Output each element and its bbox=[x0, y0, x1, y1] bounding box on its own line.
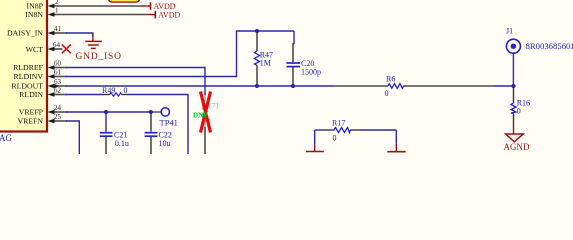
svg-text:AG: AG bbox=[0, 133, 12, 143]
pin arrow RLDIN bbox=[48, 92, 55, 96]
svg-text:41: 41 bbox=[54, 25, 62, 33]
svg-text:0: 0 bbox=[385, 89, 389, 98]
svg-text:1500p: 1500p bbox=[301, 68, 321, 77]
resistor R49 bbox=[102, 86, 129, 96]
wire R17 right leg down bbox=[395, 130, 397, 144]
svg-text:8R00368560113: 8R00368560113 bbox=[526, 41, 573, 51]
wire pin25 VREFN bbox=[53, 120, 67, 122]
svg-text:0: 0 bbox=[517, 106, 521, 115]
wire pin2 IN8P to AVDD bbox=[53, 5, 141, 7]
pin arrow RLDREF bbox=[48, 65, 55, 69]
svg-text:AGND: AGND bbox=[504, 142, 530, 152]
svg-text:J1: J1 bbox=[506, 27, 513, 36]
pin arrow RLDOUT (bidirectional) bbox=[48, 84, 55, 88]
junction node J1/R16 bbox=[512, 84, 516, 88]
power symbol AVDD (pin 1) bbox=[147, 11, 181, 20]
pin arrow IN8P bbox=[48, 4, 55, 8]
svg-text:DNP: DNP bbox=[193, 112, 208, 120]
capacitor C22 bbox=[145, 112, 172, 154]
wire pin61 RLDINV up and over to R47/C20 bbox=[53, 76, 67, 78]
ground AGND bbox=[504, 128, 530, 152]
op-amp U1 (ECG front-end IC body, yellow block at left) bbox=[0, 0, 47, 132]
svg-text:24: 24 bbox=[54, 104, 62, 112]
wire pin64 WCT stub bbox=[53, 48, 63, 50]
ground (left, clipped) bbox=[306, 145, 324, 152]
svg-text:RLDIN: RLDIN bbox=[19, 90, 43, 99]
svg-text:C20: C20 bbox=[301, 59, 314, 68]
svg-text:GND_ISO: GND_ISO bbox=[76, 52, 122, 62]
wire pin60 RLDREF bbox=[53, 67, 67, 69]
no-connect X on WCT bbox=[62, 45, 71, 54]
power symbol AVDD (pin 2) bbox=[141, 2, 176, 11]
pin arrow WCT bbox=[48, 47, 55, 51]
svg-text:IN8N: IN8N bbox=[25, 10, 43, 19]
ground GND_ISO bbox=[76, 35, 122, 62]
svg-text:RLDREF: RLDREF bbox=[13, 63, 44, 72]
connector J1 bbox=[506, 27, 573, 54]
wire pin41 DAISY_IN bbox=[53, 32, 67, 34]
svg-text:TP41: TP41 bbox=[160, 117, 178, 127]
resistor R47 bbox=[255, 31, 274, 86]
svg-text:10u: 10u bbox=[159, 139, 171, 148]
test point TP41 bbox=[160, 108, 178, 128]
svg-text:0.1u: 0.1u bbox=[115, 139, 129, 148]
svg-text:0: 0 bbox=[124, 86, 128, 95]
DNP marking X on R71 bbox=[193, 92, 211, 133]
svg-text:0: 0 bbox=[333, 133, 337, 142]
ground (right, clipped) bbox=[387, 144, 405, 152]
wire below R71 bbox=[204, 127, 206, 154]
wire TP41 stub bbox=[151, 111, 161, 113]
wire pin63 RLDOUT long net bbox=[53, 85, 67, 87]
wire J1 down to net bbox=[512, 53, 514, 86]
wire pin1 IN8N to AVDD bbox=[53, 14, 147, 16]
svg-text:VREFP: VREFP bbox=[19, 108, 44, 117]
svg-text:R49: R49 bbox=[102, 86, 115, 95]
junction node R47 bottom bbox=[255, 84, 259, 88]
wire pin62 RLDIN with R49 bbox=[53, 94, 67, 96]
pin arrow VREFN bbox=[48, 119, 55, 123]
svg-text:DAISY_IN: DAISY_IN bbox=[7, 29, 43, 38]
resistor R16 bbox=[511, 86, 530, 128]
pin arrow IN8N bbox=[48, 12, 55, 16]
component (clipped yellow part at top) bbox=[109, 0, 140, 2]
svg-text:RLDINV: RLDINV bbox=[14, 72, 44, 81]
svg-text:61: 61 bbox=[54, 69, 62, 77]
svg-text:VREFN: VREFN bbox=[17, 117, 43, 126]
wire pin24 VREFP bbox=[53, 111, 67, 113]
svg-text:2: 2 bbox=[55, 0, 59, 6]
junction node C21 top bbox=[104, 110, 108, 114]
svg-text:60: 60 bbox=[54, 60, 62, 68]
resistor R6 bbox=[385, 74, 405, 98]
resistor R17 between grounds bbox=[315, 119, 397, 143]
wire R49 to bottom bbox=[129, 95, 189, 155]
svg-text:25: 25 bbox=[54, 113, 62, 121]
junction node C20 bottom bbox=[291, 84, 295, 88]
svg-text:AVDD: AVDD bbox=[158, 11, 180, 20]
pin arrow DAISY_IN bbox=[48, 31, 55, 35]
svg-text:1: 1 bbox=[55, 7, 59, 15]
svg-text:WCT: WCT bbox=[26, 45, 44, 54]
pin arrow RLDINV bbox=[48, 74, 55, 78]
svg-text:1M: 1M bbox=[260, 58, 271, 67]
wire C20 top lead down bbox=[293, 31, 295, 44]
capacitor C21 bbox=[100, 112, 129, 154]
svg-text:R17: R17 bbox=[332, 119, 345, 128]
junction node C22 top bbox=[149, 110, 153, 114]
capacitor C20 bbox=[286, 44, 321, 86]
resistor R71 (DNP, grayed) bbox=[203, 95, 220, 127]
svg-text:R6: R6 bbox=[386, 74, 395, 83]
pin arrow VREFP bbox=[48, 110, 55, 114]
wire R17 left leg down bbox=[314, 130, 316, 145]
svg-text:62: 62 bbox=[54, 87, 62, 95]
junction node R47 top bbox=[255, 29, 259, 33]
